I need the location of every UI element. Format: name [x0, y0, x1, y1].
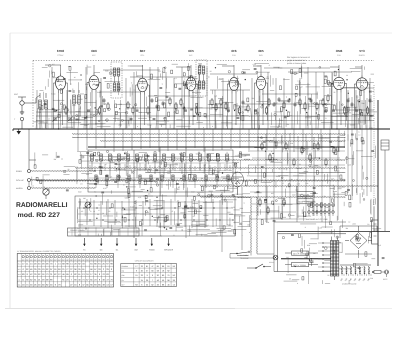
svg-text:100: 100	[290, 142, 293, 145]
svg-text:68: 68	[162, 265, 164, 268]
svg-text:50: 50	[132, 218, 134, 221]
svg-text:TENSIONE: TENSIONE	[240, 257, 250, 260]
svg-text:FONO: FONO	[16, 170, 22, 173]
svg-text:0,5: 0,5	[379, 244, 381, 247]
svg-text:50M: 50M	[78, 190, 82, 193]
svg-text:50M: 50M	[240, 207, 244, 210]
shielded lead phono 2	[31, 179, 96, 180]
svg-text:50M: 50M	[219, 77, 223, 80]
svg-text:10: 10	[147, 211, 149, 214]
svg-text:10: 10	[87, 227, 89, 230]
svg-text:100: 100	[114, 160, 117, 163]
svg-text:10: 10	[98, 203, 100, 206]
svg-text:5Y3: 5Y3	[359, 49, 365, 53]
svg-text:MASSA: MASSA	[16, 187, 23, 190]
svg-text:50M: 50M	[163, 117, 167, 120]
svg-text:20M: 20M	[274, 102, 278, 105]
svg-text:25: 25	[128, 182, 130, 185]
svg-text:0,25: 0,25	[190, 205, 193, 208]
svg-text:9: 9	[136, 270, 137, 273]
svg-text:50: 50	[268, 101, 270, 104]
svg-text:10: 10	[133, 89, 135, 92]
svg-text:50: 50	[356, 109, 358, 112]
svg-text:300: 300	[187, 75, 190, 78]
label V3 6B7	[140, 49, 146, 57]
svg-text:0,1: 0,1	[174, 77, 176, 80]
svg-text:10: 10	[307, 114, 309, 117]
svg-text:10: 10	[216, 159, 218, 162]
svg-text:50M: 50M	[105, 70, 109, 73]
svg-text:OC 1 + TERRA: OC 1 + TERRA	[293, 252, 307, 255]
terminal block OC2	[285, 263, 318, 267]
svg-text:6B7: 6B7	[140, 49, 146, 53]
svg-text:50: 50	[123, 157, 125, 160]
tube V5 (6F6)	[227, 75, 240, 94]
svg-text:100: 100	[83, 197, 86, 200]
wire top band lower verticals	[36, 96, 366, 129]
svg-text:50: 50	[235, 123, 237, 126]
label V8 5Y3	[359, 49, 366, 57]
svg-text:30: 30	[157, 274, 159, 277]
svg-text:10: 10	[156, 77, 158, 80]
svg-text:50M: 50M	[339, 251, 343, 254]
svg-text:46: 46	[157, 279, 159, 282]
svg-text:10: 10	[208, 75, 210, 78]
svg-text:10: 10	[348, 220, 350, 223]
tube V8 (5Y3)	[354, 75, 369, 93]
svg-text:12: 12	[173, 283, 175, 286]
terminal block OC1	[285, 251, 318, 255]
svg-text:0,5: 0,5	[80, 183, 82, 186]
ground symbol at bus left	[17, 129, 22, 135]
svg-text:50: 50	[61, 105, 63, 108]
svg-text:100: 100	[202, 156, 205, 159]
svg-text:9: 9	[152, 274, 153, 277]
svg-text:25: 25	[289, 278, 291, 281]
tube V7 (OM6)	[331, 75, 346, 93]
svg-text:25: 25	[210, 70, 212, 73]
inductor L1 antenna coil	[39, 93, 42, 129]
band switch inner rows	[89, 157, 232, 189]
antenna input terminal	[14, 93, 26, 110]
svg-text:RIV.: RIV.	[141, 54, 145, 57]
svg-text:10: 10	[74, 76, 76, 79]
svg-text:0,25: 0,25	[257, 114, 260, 117]
svg-text:25: 25	[81, 98, 83, 101]
svg-text:10: 10	[228, 157, 230, 160]
shielded run mid E	[75, 168, 345, 169]
svg-text:10: 10	[233, 159, 235, 162]
svg-text:58: 58	[173, 265, 175, 268]
mains plug	[383, 270, 389, 281]
svg-text:B.F.: B.F.	[189, 54, 193, 57]
tube V4 (6C5)	[184, 75, 198, 94]
svg-text:50M: 50M	[235, 77, 239, 80]
svg-text:8: 8	[150, 178, 151, 181]
tube V6 (6E5)	[254, 74, 267, 93]
svg-text:N. TENSIONI RIFER. MASSA A: N. TENSIONI RIFER. MASSA A CORRETTO CARI…	[17, 250, 61, 253]
svg-text:0,1: 0,1	[360, 121, 362, 124]
svg-text:M.F.: M.F.	[122, 283, 126, 286]
shielded lead to switch 1	[251, 197, 252, 252]
svg-text:100: 100	[305, 182, 308, 185]
label mod. RD 227	[18, 212, 61, 219]
svg-text:0,5: 0,5	[177, 202, 179, 205]
svg-text:300: 300	[86, 173, 89, 176]
svg-text:M.F.: M.F.	[92, 54, 96, 57]
component cluster top section	[103, 94, 372, 115]
inductor L2 antenna coil	[45, 93, 48, 129]
svg-text:0,1: 0,1	[186, 156, 188, 159]
svg-text:0,25: 0,25	[233, 164, 236, 167]
wire bus drop connectors	[78, 129, 339, 152]
fine detail switch block	[77, 150, 250, 236]
svg-text:5.000: 5.000	[110, 72, 114, 75]
mains voltage selector	[339, 265, 371, 286]
svg-text:0,5: 0,5	[204, 163, 206, 166]
svg-text:0,5: 0,5	[31, 185, 33, 188]
shielded cable run A	[72, 134, 345, 135]
svg-text:0,5: 0,5	[81, 210, 83, 213]
svg-text:10: 10	[358, 133, 360, 136]
svg-text:33: 33	[157, 283, 159, 286]
svg-text:10: 10	[283, 168, 285, 171]
fuse F1	[372, 271, 384, 274]
svg-text:50M: 50M	[84, 124, 88, 127]
wire rectifier links	[340, 226, 377, 258]
svg-text:23: 23	[141, 265, 143, 268]
svg-text:100: 100	[209, 103, 212, 106]
note top-right	[287, 56, 310, 65]
svg-text:8: 8	[44, 186, 45, 189]
svg-text:20M: 20M	[307, 244, 311, 247]
svg-text:300: 300	[251, 97, 254, 100]
svg-text:6C5: 6C5	[188, 49, 194, 53]
svg-text:8: 8	[116, 170, 117, 173]
speaker field coil	[381, 140, 389, 231]
svg-text:0,5: 0,5	[110, 175, 112, 178]
svg-text:0,5: 0,5	[158, 70, 160, 73]
svg-text:0,5: 0,5	[318, 148, 320, 151]
tube V9 tuning indicator 6E5	[228, 172, 244, 195]
svg-text:10: 10	[61, 158, 63, 161]
svg-text:25: 25	[333, 91, 335, 94]
shielded run mid I	[200, 197, 345, 198]
svg-text:0,25: 0,25	[253, 63, 256, 66]
svg-text:0,25: 0,25	[118, 221, 121, 224]
svg-text:100: 100	[295, 188, 298, 191]
svg-text:300: 300	[164, 121, 167, 124]
svg-text:300: 300	[135, 106, 138, 109]
wire heater rail	[48, 123, 360, 125]
svg-text:0,25: 0,25	[331, 178, 334, 181]
svg-text:50M: 50M	[266, 221, 270, 224]
svg-text:6M6 6M6G ALT 6T7 OM6: 6M6 6M6G ALT 6T7 OM6	[306, 218, 327, 221]
svg-text:OM6: OM6	[336, 49, 343, 53]
capacitor C psu 1	[305, 251, 309, 259]
svg-text:62: 62	[151, 283, 153, 286]
svg-text:8: 8	[49, 118, 50, 121]
svg-text:0,1: 0,1	[351, 143, 353, 146]
svg-text:5.000: 5.000	[276, 175, 280, 178]
phono input terminals	[16, 170, 31, 191]
svg-text:0,25: 0,25	[369, 127, 372, 130]
fine detail psu block	[282, 226, 384, 284]
ground symbol antenna	[20, 110, 24, 114]
wire heavy distribution	[88, 146, 345, 148]
svg-text:Per togliere le tensioni di: Per togliere le tensioni di	[287, 56, 310, 59]
svg-text:RADIOMARELLI: RADIOMARELLI	[16, 202, 68, 209]
capacitor CV1 tuning	[53, 117, 59, 122]
svg-text:0,5: 0,5	[58, 111, 60, 114]
svg-text:300: 300	[161, 207, 164, 210]
svg-text:8: 8	[286, 185, 287, 188]
svg-text:25: 25	[323, 195, 325, 198]
svg-text:300: 300	[75, 101, 78, 104]
svg-text:10: 10	[102, 212, 104, 215]
svg-text:50: 50	[267, 75, 269, 78]
wire switch risers	[230, 252, 274, 258]
fine detail top band A	[38, 63, 130, 127]
svg-text:75: 75	[167, 274, 169, 277]
svg-text:10: 10	[93, 210, 95, 213]
svg-text:50: 50	[94, 191, 96, 194]
svg-text:CONV.: CONV.	[57, 54, 64, 57]
bridge rectifier	[345, 226, 372, 254]
svg-text:0,1: 0,1	[328, 208, 330, 211]
band switch coil assembly	[75, 150, 235, 236]
inductor L3 oscillator coil	[73, 90, 81, 129]
svg-text:IND.: IND.	[259, 54, 264, 57]
phono switch	[230, 251, 250, 256]
svg-text:8: 8	[141, 283, 142, 286]
svg-text:5.000: 5.000	[369, 100, 373, 103]
svg-text:6D6: 6D6	[91, 49, 97, 53]
wire grid cap links	[45, 65, 362, 67]
svg-text:50M: 50M	[217, 171, 221, 174]
svg-text:50M: 50M	[325, 206, 329, 209]
svg-text:32: 32	[146, 283, 148, 286]
label RADIOMARELLI	[16, 202, 68, 209]
svg-text:8: 8	[227, 151, 228, 154]
earth terminal	[14, 117, 24, 129]
svg-text:0,1: 0,1	[297, 79, 299, 82]
potentiometer R volume	[43, 189, 49, 199]
svg-text:50M: 50M	[196, 152, 200, 155]
svg-text:300: 300	[90, 113, 93, 116]
svg-text:50M: 50M	[167, 170, 171, 173]
svg-text:10: 10	[54, 116, 56, 119]
svg-text:10: 10	[167, 265, 169, 268]
svg-text:20M: 20M	[119, 124, 123, 127]
svg-text:9: 9	[147, 274, 148, 277]
label V5 6F6	[231, 49, 237, 57]
shielded cable run C	[100, 141, 345, 142]
svg-text:50M: 50M	[125, 196, 129, 199]
svg-text:0,25: 0,25	[297, 183, 300, 186]
IF transformer T2 can	[196, 60, 207, 96]
svg-text:0,5: 0,5	[204, 82, 206, 85]
svg-text:V.A.: V.A.	[18, 263, 22, 266]
label V2 6D6	[91, 49, 97, 57]
svg-text:20M: 20M	[85, 83, 89, 86]
svg-text:10: 10	[346, 74, 348, 77]
label V6 6E5	[258, 49, 264, 57]
svg-text:0,25: 0,25	[138, 196, 141, 199]
wire HT heavy vertical	[377, 100, 379, 266]
tube V2 (6D6)	[87, 73, 101, 93]
svg-text:0,5: 0,5	[52, 63, 54, 66]
svg-text:300: 300	[214, 94, 217, 97]
svg-text:5.000: 5.000	[147, 123, 151, 126]
fine detail top lower strip	[33, 100, 369, 128]
shielded run mid H	[200, 186, 378, 187]
svg-text:8: 8	[362, 266, 363, 269]
svg-text:50: 50	[201, 96, 203, 99]
label V7 OM6	[336, 49, 343, 57]
wire AVC rail	[36, 115, 374, 117]
svg-text:PICK-UP: PICK-UP	[16, 179, 24, 182]
shielded lead phono 1	[31, 170, 96, 171]
svg-text:CIRCUITI ACCORDATI: CIRCUITI ACCORDATI	[135, 260, 154, 263]
svg-text:50: 50	[279, 167, 281, 170]
svg-text:OL: OL	[116, 249, 119, 252]
shielded run mid F	[145, 172, 345, 173]
svg-text:0,1: 0,1	[356, 95, 358, 98]
svg-text:6F6: 6F6	[231, 49, 237, 53]
shielded run mid G	[36, 180, 345, 182]
svg-text:SPEAKER: SPEAKER	[164, 249, 174, 252]
svg-text:20: 20	[141, 270, 143, 273]
wire heavy to transformer	[281, 258, 331, 260]
fine detail AF block	[254, 134, 345, 228]
IF transformer T1 can	[111, 62, 122, 98]
shielded lead to switch 2	[257, 197, 258, 252]
svg-text:34: 34	[141, 279, 143, 282]
output transformer terminal MOD-TAV	[297, 199, 313, 204]
svg-text:51: 51	[135, 274, 137, 277]
svg-text:0,1: 0,1	[299, 163, 301, 166]
wave band switch strip	[68, 228, 140, 236]
svg-text:58: 58	[157, 270, 159, 273]
tube socket pins output	[306, 204, 334, 221]
svg-text:50M: 50M	[227, 223, 231, 226]
svg-text:300: 300	[166, 183, 169, 186]
power transformer T3	[318, 237, 339, 281]
svg-text:20M: 20M	[97, 91, 101, 94]
svg-text:46: 46	[167, 283, 169, 286]
svg-text:6TE8: 6TE8	[57, 49, 65, 53]
svg-text:22: 22	[141, 274, 143, 277]
capacitor C psu 2	[310, 258, 314, 266]
selector arrows with labels	[83, 238, 174, 252]
svg-text:5.000: 5.000	[130, 205, 134, 208]
capacitor C filter block	[372, 220, 379, 244]
potentiometer R tone	[85, 202, 91, 208]
svg-text:47: 47	[151, 265, 153, 268]
svg-text:10: 10	[311, 101, 313, 104]
mains switch	[240, 254, 271, 269]
svg-text:griglia misurate fra il: griglia misurate fra il	[287, 59, 306, 62]
svg-text:6E5: 6E5	[258, 49, 264, 53]
svg-text:20M: 20M	[78, 233, 82, 236]
svg-text:GAMMA: GAMMA	[122, 265, 129, 268]
svg-text:FIN.: FIN.	[232, 54, 236, 57]
alignment table	[121, 260, 177, 287]
svg-text:FIN.: FIN.	[337, 54, 341, 57]
svg-text:0,25: 0,25	[319, 226, 322, 229]
svg-text:100: 100	[177, 188, 180, 191]
wire right column verticals	[348, 95, 371, 200]
svg-text:56: 56	[162, 279, 164, 282]
svg-text:300: 300	[149, 116, 152, 119]
svg-text:88: 88	[162, 283, 164, 286]
svg-text:20M: 20M	[320, 99, 324, 102]
tube V3 (6B7)	[136, 76, 150, 95]
wire screen supply rail	[36, 120, 374, 122]
tube V1 (6TE8)	[54, 74, 68, 94]
svg-text:8: 8	[123, 183, 124, 186]
svg-text:10: 10	[178, 186, 180, 189]
svg-text:0,25: 0,25	[348, 163, 351, 166]
wire horizontal interconnects top	[36, 68, 374, 112]
svg-text:10: 10	[77, 227, 79, 230]
svg-text:8: 8	[321, 119, 322, 122]
wire long verticals mid-bottom	[134, 147, 297, 252]
svg-text:100: 100	[337, 170, 340, 173]
svg-text:81: 81	[146, 265, 148, 268]
svg-text:85: 85	[157, 265, 159, 268]
wire phono risers	[29, 129, 36, 186]
svg-text:26: 26	[146, 279, 148, 282]
svg-text:25: 25	[108, 210, 110, 213]
svg-text:17: 17	[135, 265, 137, 268]
svg-text:56: 56	[173, 274, 175, 277]
voltage table	[17, 250, 113, 287]
svg-text:50: 50	[139, 77, 141, 80]
svg-text:100: 100	[278, 122, 281, 125]
svg-text:OM: OM	[134, 249, 137, 252]
svg-text:0,25: 0,25	[103, 187, 106, 190]
svg-text:5.000: 5.000	[58, 80, 62, 83]
svg-text:25: 25	[327, 274, 329, 277]
svg-text:93: 93	[135, 283, 137, 286]
fine detail top band B	[130, 63, 250, 127]
svg-text:100: 100	[271, 192, 274, 195]
svg-text:0,25: 0,25	[232, 206, 235, 209]
notes text block	[0, 0, 1, 1]
svg-text:5.000: 5.000	[278, 67, 282, 70]
svg-text:0,25: 0,25	[339, 140, 342, 143]
svg-text:RADD.: RADD.	[359, 54, 366, 57]
svg-text:25: 25	[104, 179, 106, 182]
svg-text:10: 10	[355, 234, 357, 237]
svg-text:Fo: Fo	[83, 249, 85, 252]
svg-text:50M: 50M	[361, 102, 365, 105]
wire vertical interconnects top	[37, 67, 370, 129]
svg-text:20M: 20M	[292, 194, 296, 197]
svg-text:FONO: FONO	[149, 249, 155, 252]
svg-text:98: 98	[167, 279, 169, 282]
svg-text:89: 89	[162, 274, 164, 277]
svg-text:V.S.: V.S.	[18, 268, 22, 271]
wire top tube drops	[54, 65, 370, 130]
svg-text:38: 38	[173, 279, 175, 282]
svg-text:300: 300	[370, 277, 373, 280]
fine detail right column	[344, 95, 377, 225]
wire HT vertical 2	[373, 207, 375, 232]
svg-text:0,25: 0,25	[209, 108, 212, 111]
